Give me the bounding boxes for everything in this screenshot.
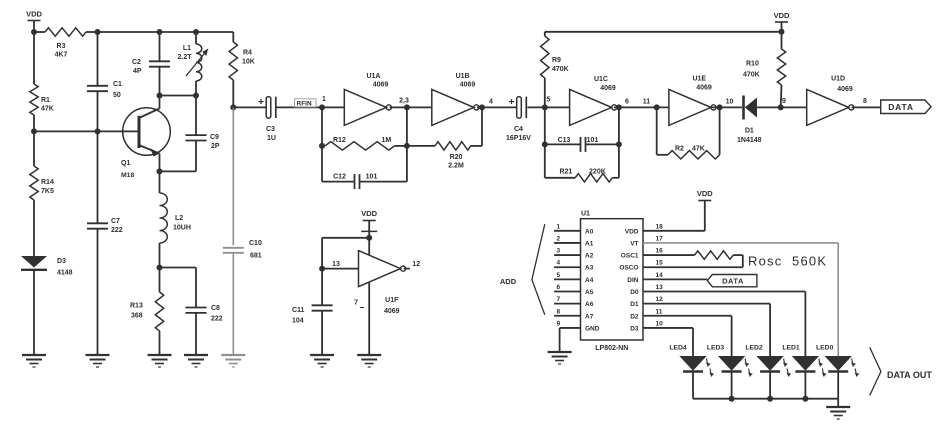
svg-text:47K: 47K (41, 106, 54, 113)
pin 7 (354, 300, 364, 308)
svg-text:1: 1 (322, 96, 326, 103)
svg-text:U1D: U1D (831, 76, 845, 83)
node junction (rail LED1) (802, 396, 808, 402)
svg-text:DATA: DATA (888, 102, 914, 112)
node junction (pin4) (479, 104, 485, 110)
node junction (pin11) (654, 104, 660, 110)
node junction (L2-R13) (157, 265, 163, 271)
svg-text:U1F: U1F (385, 297, 399, 304)
svg-text:R14: R14 (41, 179, 54, 186)
svg-text:222: 222 (111, 227, 123, 234)
svg-text:D2: D2 (630, 313, 639, 320)
node junction (2-3) (404, 104, 410, 110)
pin 11 (643, 99, 651, 106)
ground (C7) (86, 355, 110, 367)
svg-text:R21: R21 (559, 168, 572, 175)
svg-text:1N4148: 1N4148 (737, 137, 762, 144)
node RFIN (295, 99, 317, 108)
svg-text:1M: 1M (382, 137, 392, 144)
svg-text:D3: D3 (630, 325, 639, 332)
svg-text:VDD: VDD (361, 209, 377, 218)
svg-text:4P: 4P (133, 68, 142, 75)
svg-text:4069: 4069 (460, 82, 476, 89)
svg-text:3: 3 (557, 248, 561, 255)
svg-text:R12: R12 (333, 137, 346, 144)
op-amp U1D (807, 76, 854, 126)
wire (852, 106, 881, 108)
svg-text:VDD: VDD (697, 189, 713, 198)
pin 13 (332, 261, 340, 268)
svg-text:5: 5 (547, 97, 551, 104)
svg-text:470K: 470K (743, 72, 760, 79)
wire (160, 170, 197, 172)
svg-text:VT: VT (630, 240, 638, 247)
wire (LED cathode rail) (693, 398, 838, 400)
wire (406, 107, 408, 181)
wire (477, 106, 517, 108)
wire (321, 107, 323, 181)
svg-text:50: 50 (113, 92, 121, 99)
inductor L2 (160, 171, 191, 267)
wire (DIN pin14) (643, 278, 707, 280)
svg-text:A3: A3 (585, 265, 594, 272)
svg-text:368: 368 (131, 313, 143, 320)
diode D1 (737, 96, 781, 144)
svg-text:R1: R1 (41, 97, 50, 104)
svg-text:M18: M18 (121, 172, 134, 179)
node junction (L1 top) (193, 29, 199, 35)
svg-text:15: 15 (656, 260, 664, 267)
wire (710, 106, 742, 108)
resistor R2 (657, 107, 720, 159)
capacitor C4 (506, 97, 531, 142)
svg-text:4148: 4148 (57, 270, 73, 277)
svg-text:D0: D0 (630, 289, 639, 296)
wire (GND pin) (560, 328, 581, 352)
svg-text:VDD: VDD (625, 228, 639, 235)
svg-text:ADD: ADD (500, 277, 517, 286)
wire (277, 106, 323, 108)
svg-text:GND: GND (585, 325, 600, 332)
power VDD (U1 chip) (697, 189, 713, 201)
node junction (collector) (157, 93, 163, 99)
ground (U1F) (357, 355, 381, 367)
wire (VT pin17 to LED0) (643, 243, 838, 356)
svg-text:L2: L2 (175, 215, 183, 222)
svg-text:2,3: 2,3 (399, 98, 409, 105)
ground (LED rail) (826, 407, 850, 419)
svg-text:47K: 47K (692, 145, 705, 152)
svg-text:9: 9 (557, 320, 561, 327)
svg-text:DATA: DATA (722, 277, 744, 286)
pin 9 (782, 98, 786, 105)
wire (160, 95, 197, 97)
wire (98, 31, 160, 33)
svg-text:R10: R10 (746, 61, 759, 68)
wire (address pins 1-8) (554, 223, 580, 315)
resistor R9 (541, 32, 569, 108)
svg-text:18: 18 (656, 223, 664, 230)
svg-text:C13: C13 (558, 137, 571, 144)
svg-text:222: 222 (211, 316, 223, 323)
svg-text:C7: C7 (111, 218, 120, 225)
node DATA OUT (brace) (870, 347, 933, 395)
svg-text:C4: C4 (514, 126, 523, 133)
wire (781, 106, 807, 108)
svg-text:220K: 220K (589, 168, 606, 175)
svg-text:LED1: LED1 (782, 345, 800, 352)
svg-text:13: 13 (332, 261, 340, 268)
node junction (U1F input) (319, 266, 325, 272)
svg-text:4K7: 4K7 (55, 52, 68, 59)
node junction (C13 right) (616, 141, 622, 147)
pin 2,3 (399, 98, 409, 105)
resistor R13 (130, 268, 164, 356)
svg-text:10K: 10K (242, 59, 255, 66)
svg-text:R9: R9 (552, 57, 561, 64)
svg-text:D3: D3 (57, 258, 66, 265)
svg-text:11: 11 (643, 99, 651, 106)
node junction (rail LED3) (729, 396, 735, 402)
node junction (R12 right) (404, 143, 410, 149)
svg-text:1: 1 (557, 223, 561, 230)
pin 6 (625, 99, 629, 106)
svg-text:4069: 4069 (384, 308, 400, 315)
LED LED4 (669, 345, 714, 399)
node junction (R3-C1) (95, 29, 101, 35)
diode D3 (21, 256, 73, 355)
pin 8 (863, 98, 867, 105)
svg-text:RFIN: RFIN (297, 101, 312, 108)
svg-text:DATA OUT: DATA OUT (887, 370, 932, 380)
node junction (emitter) (157, 168, 163, 174)
node junction (rail LED2) (767, 396, 773, 402)
inductor L1 (177, 32, 208, 96)
pin 10 (726, 99, 734, 106)
resistor R4 (229, 42, 255, 107)
svg-text:OSC1: OSC1 (621, 253, 639, 260)
svg-text:U1B: U1B (456, 73, 470, 80)
svg-text:4069: 4069 (373, 82, 389, 89)
svg-text:16: 16 (656, 248, 664, 255)
wire (368, 282, 370, 355)
svg-text:R20: R20 (450, 154, 463, 161)
power VDD (U1F) (361, 209, 377, 256)
node junction (C2 top) (157, 29, 163, 35)
capacitor C8 (186, 305, 223, 355)
svg-text:7K5: 7K5 (41, 188, 54, 195)
node junction (pin10) (717, 104, 723, 110)
ground (D3) (22, 355, 46, 367)
svg-text:Q1: Q1 (121, 160, 130, 167)
svg-text:4069: 4069 (696, 85, 712, 92)
op-amp U1C (570, 76, 617, 125)
ground (C8) (184, 355, 208, 367)
svg-text:17: 17 (656, 235, 664, 242)
svg-text:R2: R2 (675, 145, 684, 152)
node junction (R12 left) (319, 143, 325, 149)
wire (33, 32, 35, 84)
node ADD (brace) (500, 224, 545, 315)
svg-text:10: 10 (726, 99, 734, 106)
svg-text:7: 7 (557, 296, 561, 303)
LED LED3 (707, 345, 753, 399)
svg-text:R3: R3 (57, 43, 66, 50)
svg-text:OSCO: OSCO (619, 265, 638, 272)
node junction (pin5) (542, 104, 548, 110)
LED LED2 (745, 345, 791, 399)
node junction (VDD rail left) (31, 29, 37, 35)
svg-text:2P: 2P (211, 143, 220, 150)
LED LED1 (782, 345, 826, 399)
node DATA (DIN tag) (707, 275, 757, 287)
svg-text:C12: C12 (333, 173, 346, 180)
svg-text:C2: C2 (132, 59, 141, 66)
op-amp U1A (344, 73, 391, 125)
node junction (L1-C9) (193, 93, 199, 99)
IC U1 LP802-NN (581, 211, 644, 353)
svg-text:A2: A2 (585, 253, 594, 260)
op-amp U1B (432, 73, 479, 125)
svg-text:C11: C11 (292, 307, 305, 314)
svg-text:2.2T: 2.2T (177, 54, 192, 61)
svg-text:8: 8 (557, 308, 561, 315)
svg-text:D1: D1 (745, 127, 754, 134)
capacitor C7 (87, 131, 123, 355)
resistor R3 (34, 28, 98, 59)
svg-text:11: 11 (656, 308, 663, 315)
svg-text:8: 8 (863, 98, 867, 105)
svg-text:14: 14 (656, 272, 664, 279)
svg-text:LED3: LED3 (707, 345, 725, 352)
transistor Q1 (121, 96, 170, 180)
svg-text:U1: U1 (581, 211, 590, 218)
resistor R21 (545, 107, 619, 182)
svg-text:C8: C8 (211, 305, 220, 312)
svg-text:5: 5 (557, 272, 561, 279)
svg-text:LED4: LED4 (669, 345, 687, 352)
svg-text:12: 12 (656, 296, 664, 303)
svg-text:16P16V: 16P16V (506, 135, 531, 142)
pin numbers 18-10 (656, 223, 664, 327)
node junction (pin6) (616, 104, 622, 110)
pin 4 (489, 99, 493, 106)
svg-text:A4: A4 (585, 277, 594, 284)
wire (837, 399, 839, 407)
ground (U1 GND) (548, 352, 572, 364)
svg-text:2.2M: 2.2M (448, 163, 464, 170)
svg-text:L1: L1 (183, 45, 191, 52)
capacitor C1 (87, 81, 122, 131)
power VDD (right) (774, 11, 790, 32)
wire (544, 107, 546, 177)
svg-text:1U: 1U (267, 135, 276, 142)
svg-text:12: 12 (412, 261, 420, 268)
wire (614, 106, 669, 108)
svg-text:C9: C9 (210, 134, 219, 141)
resistor R12 (325, 137, 407, 150)
svg-text:A6: A6 (585, 301, 594, 308)
node junction (pin1) (319, 104, 325, 110)
LED LED0 (816, 345, 859, 399)
wire (322, 268, 358, 270)
resistor R1 (30, 84, 54, 131)
resistor R14 (30, 131, 54, 256)
wire (D2 pin11 to LED3) (643, 316, 732, 356)
svg-text:A1: A1 (585, 240, 594, 247)
wire (196, 32, 233, 42)
wire (34, 130, 139, 132)
wire (97, 32, 99, 86)
svg-text:U1C: U1C (594, 76, 608, 83)
svg-text:10UH: 10UH (173, 225, 191, 232)
svg-text:6: 6 (625, 99, 629, 106)
resistor Rosc 560K (643, 251, 826, 269)
capacitor C10 (223, 107, 262, 355)
op-amp U1E (669, 76, 716, 126)
pin 12 (412, 261, 420, 268)
svg-text:DIN: DIN (627, 277, 639, 284)
pin 5 (547, 97, 551, 104)
svg-text:LED0: LED0 (816, 345, 834, 352)
svg-text:2: 2 (557, 235, 561, 242)
svg-text:R4: R4 (243, 50, 252, 57)
wire (404, 268, 410, 270)
wire (D1 pin12 to LED2) (643, 304, 770, 356)
op-amp U1F (359, 251, 406, 315)
svg-text:U1E: U1E (692, 76, 706, 83)
svg-text:Rosc 560K: Rosc 560K (748, 254, 826, 269)
capacitor C9 (186, 96, 220, 172)
node DATA (output tag) (881, 100, 931, 114)
capacitor C2 (132, 32, 170, 96)
svg-text:4: 4 (489, 99, 493, 106)
svg-text:A7: A7 (585, 313, 594, 320)
svg-text:13: 13 (656, 284, 664, 291)
svg-text:VDD: VDD (774, 11, 790, 20)
wire (390, 106, 432, 108)
power VDD (left) (26, 10, 42, 33)
svg-text:LP802-NN: LP802-NN (595, 345, 628, 352)
svg-text:470K: 470K (552, 66, 569, 73)
svg-text:7: 7 (354, 300, 358, 307)
svg-text:9: 9 (782, 98, 786, 105)
wire (VDD pin18) (643, 201, 705, 231)
svg-text:A0: A0 (585, 228, 594, 235)
svg-text:4069: 4069 (837, 86, 853, 93)
wire (528, 106, 570, 108)
ground (C10) (221, 355, 245, 367)
node junction (C1-base wire) (95, 128, 101, 134)
node junction (C13 left) (542, 141, 548, 147)
pin 1 (322, 96, 326, 103)
wire (361, 230, 377, 232)
svg-text:101: 101 (366, 173, 378, 180)
wire (322, 238, 369, 269)
svg-text:D1: D1 (630, 301, 639, 308)
svg-text:LED2: LED2 (745, 345, 763, 352)
svg-text:C3: C3 (266, 126, 275, 133)
capacitor C13 (545, 137, 619, 152)
svg-text:104: 104 (292, 318, 304, 325)
resistor R20 (407, 107, 482, 169)
ground (R13) (148, 355, 172, 367)
svg-text:C1: C1 (113, 81, 122, 88)
svg-text:VDD: VDD (26, 10, 42, 19)
svg-text:4069: 4069 (600, 85, 616, 92)
svg-text:U1A: U1A (366, 73, 380, 80)
capacitor C3 (259, 97, 276, 142)
svg-text:4: 4 (557, 260, 561, 267)
svg-text:681: 681 (250, 253, 262, 260)
svg-text:A5: A5 (585, 289, 594, 296)
node junction (R4-C10) (230, 104, 236, 110)
wire (233, 106, 266, 108)
wire (D3 pin10 to LED4) (643, 328, 693, 356)
svg-text:10: 10 (656, 320, 664, 327)
wire (322, 106, 344, 108)
wire (545, 31, 782, 33)
wire (D0 pin13 to LED1) (643, 292, 805, 357)
resistor R10 (743, 32, 786, 108)
pin 9 (557, 320, 561, 327)
wire (160, 31, 197, 33)
svg-text:6: 6 (557, 284, 561, 291)
node junction (Q1 base) (31, 128, 37, 134)
svg-text:101: 101 (587, 137, 599, 144)
svg-text:C10: C10 (249, 240, 262, 247)
node junction (pin9) (778, 104, 784, 110)
capacitor C12 (322, 173, 407, 189)
ground (C11) (310, 355, 334, 367)
node junction (U1F vdd) (366, 235, 372, 241)
capacitor C11 (292, 269, 333, 355)
svg-text:R13: R13 (130, 303, 143, 310)
wire (160, 268, 197, 308)
node junction (VDD rail right) (779, 29, 785, 35)
